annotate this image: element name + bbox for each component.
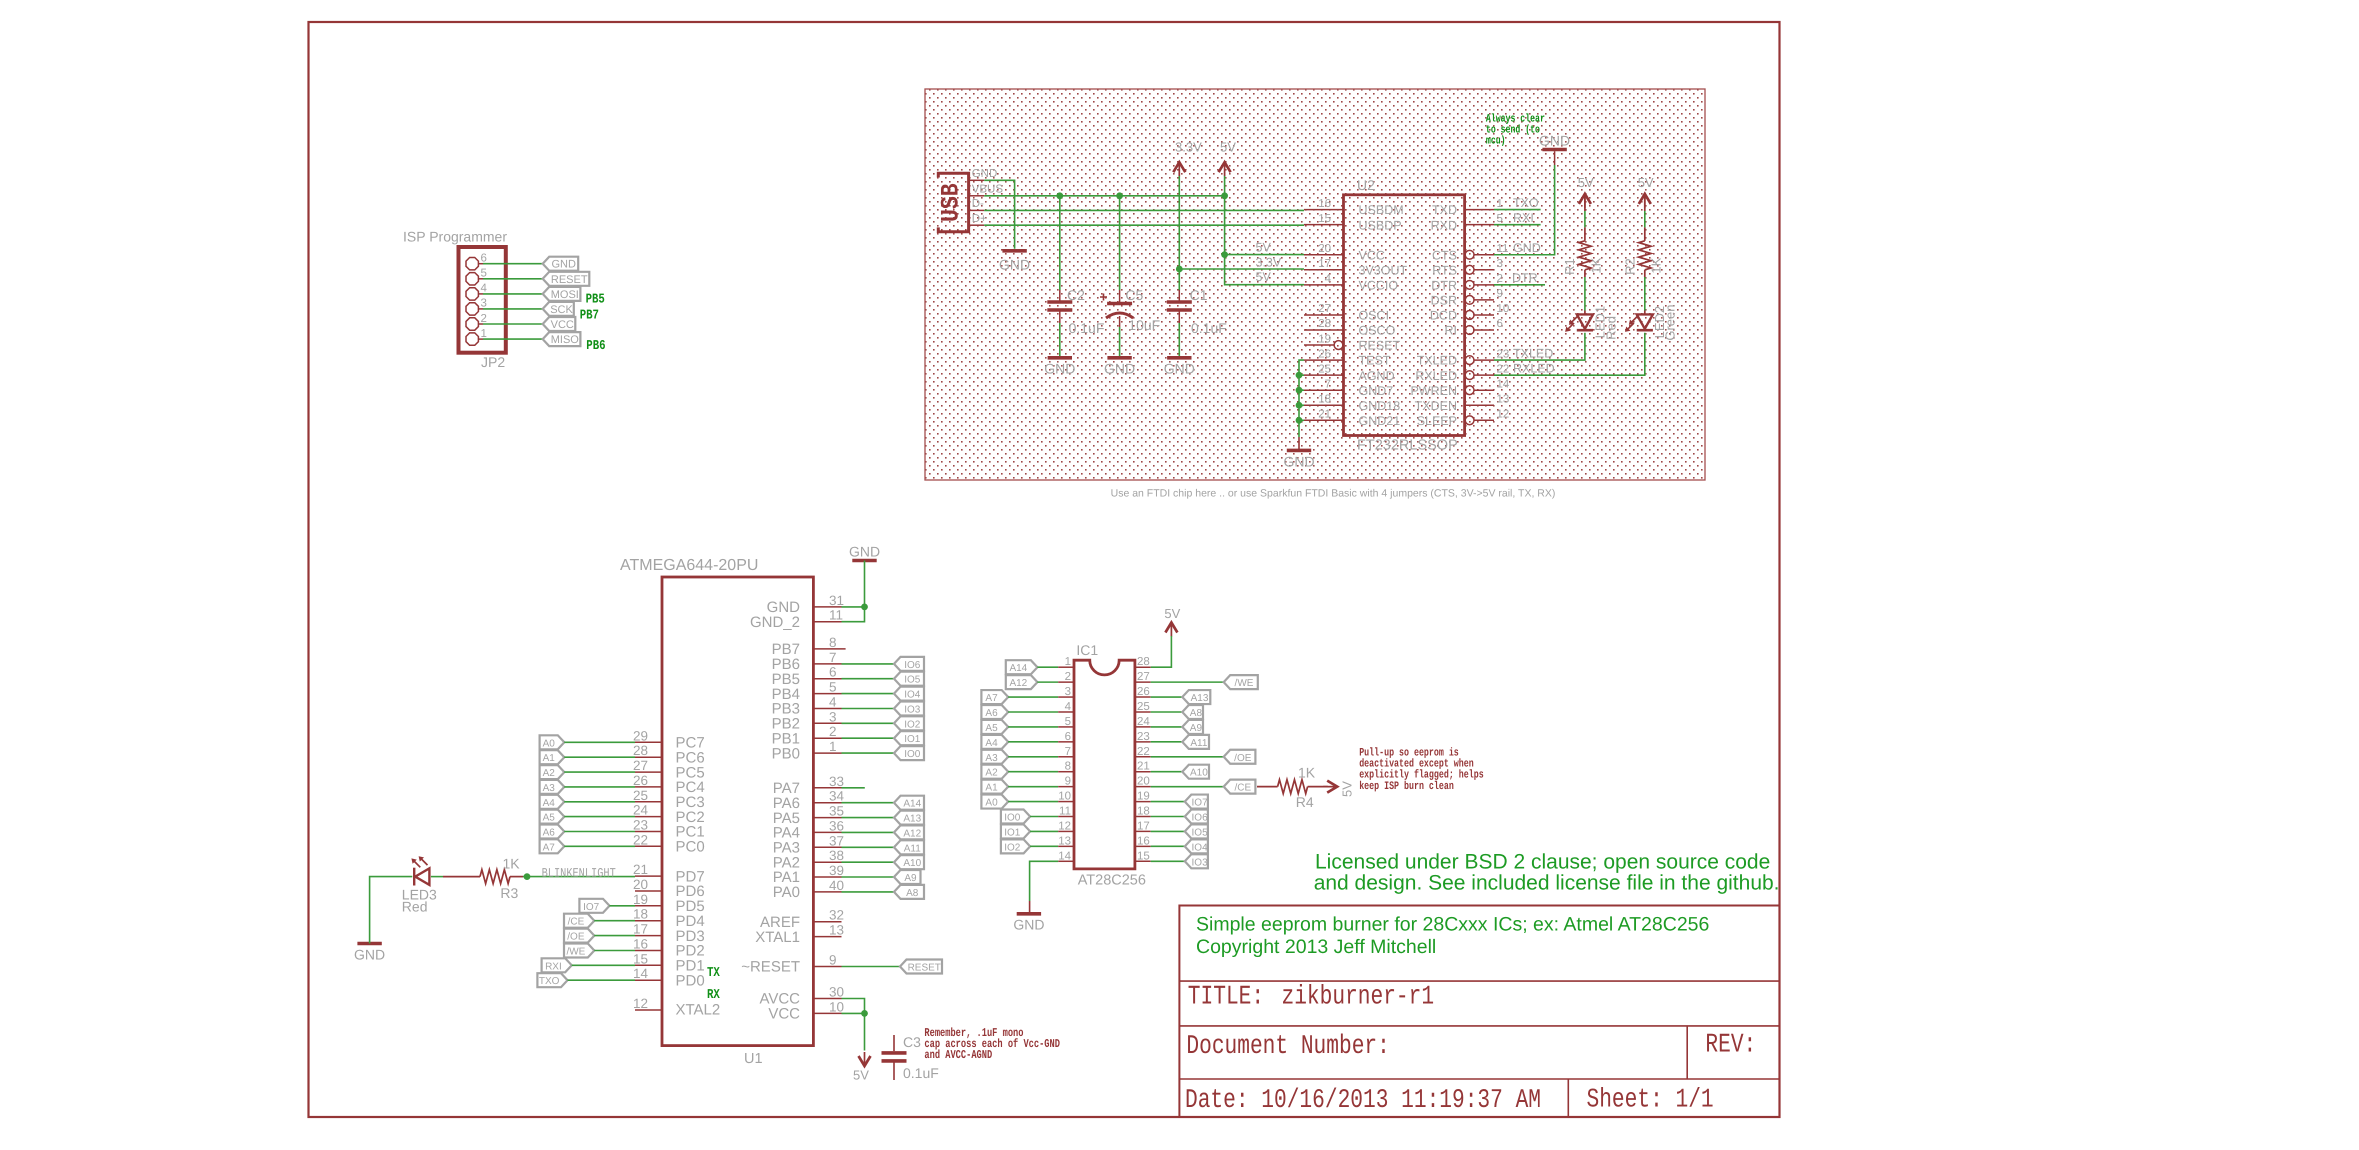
svg-text:3V3OUT: 3V3OUT: [1359, 263, 1408, 277]
svg-text:VBUS: VBUS: [972, 184, 1004, 196]
wire IO1 to IC1: [1030, 830, 1058, 832]
U2 pin 28 OSCO stub: [1304, 329, 1344, 331]
net label BLINKENLIGHT: [542, 867, 616, 882]
svg-text:Licensed under BSD 2 clause; o: Licensed under BSD 2 clause; open source…: [1315, 851, 1770, 874]
svg-text:3: 3: [829, 709, 837, 724]
wire RXI to U1: [572, 964, 635, 966]
svg-text:31: 31: [829, 593, 844, 608]
svg-text:1: 1: [1065, 656, 1071, 668]
U2 pin 18 GND18 stub: [1304, 404, 1344, 406]
wire IC1 to IO4: [1151, 845, 1185, 847]
svg-text:Document Number:: Document Number:: [1186, 1031, 1389, 1061]
svg-text:/WE: /WE: [1235, 678, 1254, 689]
U1 pin 27 stub: [635, 771, 662, 773]
svg-text:A4: A4: [985, 738, 998, 749]
ground symbol C1: [1167, 356, 1191, 360]
net flag A6: [540, 825, 565, 839]
wire IO0 to IC1: [1030, 816, 1058, 818]
svg-text:GND: GND: [1104, 361, 1135, 377]
wire 5V to IC1 pin28: [1151, 636, 1172, 667]
svg-text:GND: GND: [1539, 133, 1570, 149]
svg-text:D-: D-: [972, 198, 984, 210]
net flag A13 (U1 right): [894, 811, 924, 825]
IC1 pin 28 stub: [1135, 666, 1151, 668]
IC1 pin 5 stub: [1058, 726, 1074, 728]
resistor R1: [1579, 241, 1591, 270]
svg-text:20: 20: [1318, 243, 1331, 255]
svg-text:MOSI: MOSI: [551, 289, 579, 301]
wire IC1 to A10: [1151, 771, 1183, 773]
wire GND21 to bus: [1299, 419, 1304, 421]
svg-text:TX: TX: [707, 966, 720, 981]
IC1 pin 8 stub: [1058, 771, 1074, 773]
svg-text:RI: RI: [1445, 324, 1458, 338]
U1 pin 10 stub: [813, 1012, 841, 1014]
svg-text:21: 21: [1318, 409, 1331, 421]
svg-text:38: 38: [829, 848, 844, 863]
wire C5 to ground: [1119, 316, 1121, 327]
svg-text:PWREN: PWREN: [1410, 384, 1457, 398]
svg-text:Date: 10/16/2013 11:19:37 AM: Date: 10/16/2013 11:19:37 AM: [1185, 1085, 1541, 1115]
title block Date field: [1185, 1085, 1541, 1115]
svg-text:DTR: DTR: [1431, 278, 1457, 292]
connector JP2 body: [459, 247, 506, 353]
svg-text:5V: 5V: [1220, 140, 1236, 155]
svg-text:6: 6: [1065, 731, 1071, 743]
svg-text:RXLED: RXLED: [1415, 369, 1457, 383]
U2 pin 16 USBDM stub: [1304, 209, 1344, 211]
svg-text:35: 35: [829, 804, 844, 819]
IC1 pin 17 stub: [1135, 830, 1151, 832]
net flag IO4 (IC1 right): [1185, 839, 1208, 853]
net flag A12 (U1 right): [894, 825, 924, 839]
svg-text:GND: GND: [1013, 917, 1044, 933]
hatched FTDI region: [925, 89, 1705, 480]
U1 pin 19 stub: [635, 905, 662, 907]
svg-text:IO1: IO1: [1004, 827, 1021, 838]
svg-text:A1: A1: [543, 753, 556, 764]
svg-text:A2: A2: [985, 768, 998, 779]
svg-text:39: 39: [829, 863, 844, 878]
svg-text:PA0: PA0: [773, 884, 800, 901]
svg-text:0.1uF: 0.1uF: [1191, 320, 1227, 336]
U2 pin 25 AGND stub: [1304, 374, 1344, 376]
svg-text:2: 2: [1497, 273, 1503, 285]
IC1 pin 1 stub: [1058, 666, 1074, 668]
net flag MISO: [543, 332, 581, 346]
svg-text:A9: A9: [1190, 723, 1203, 734]
junction VBUS C5: [1116, 192, 1123, 199]
net flag /OE (IC1 right): [1224, 750, 1256, 764]
svg-text:OSCO: OSCO: [1359, 324, 1396, 338]
wire USB GND to ground: [984, 180, 1014, 249]
junction VCC branch: [1221, 251, 1228, 258]
U2 pin 7 GND7 stub: [1304, 389, 1344, 391]
svg-text:BLINKENLIGHT: BLINKENLIGHT: [542, 867, 616, 882]
svg-text:ISP Programmer: ISP Programmer: [403, 229, 507, 245]
net flag IO6 (IC1 right): [1185, 810, 1208, 824]
U1 pin 21 stub: [635, 875, 662, 877]
wire VCC pin: [842, 1012, 865, 1014]
JP2 pin 2 stub: [478, 323, 483, 325]
svg-text:1K: 1K: [503, 856, 521, 872]
svg-text:RTS: RTS: [1432, 263, 1457, 277]
net flag A14 (U1 right): [894, 796, 924, 810]
U1 pin 23 stub: [635, 831, 662, 833]
svg-text:28: 28: [633, 743, 648, 758]
svg-text:27: 27: [1318, 303, 1331, 315]
svg-text:1K: 1K: [1648, 257, 1663, 273]
U2 pin 2 DTR stub: [1474, 284, 1494, 286]
svg-text:Simple eeprom burner for 28Cxx: Simple eeprom burner for 28Cxxx ICs; ex:…: [1196, 914, 1709, 936]
wire JP2 to SCK flag: [483, 308, 543, 310]
IC1 pin 27 stub: [1135, 681, 1151, 683]
resistor R3: [480, 870, 510, 884]
svg-text:5V: 5V: [1256, 270, 1272, 284]
svg-text:IO2: IO2: [1004, 842, 1021, 853]
svg-text:IO7: IO7: [583, 902, 600, 913]
net flag IO5 (U1 right): [894, 672, 924, 686]
svg-text:16: 16: [1137, 835, 1150, 847]
title block Sheet field: [1587, 1085, 1714, 1115]
net flag IO7 (U1): [579, 899, 609, 913]
net flag IO2 (IC1): [1001, 839, 1030, 853]
svg-text:5V: 5V: [1340, 781, 1355, 797]
svg-text:18: 18: [633, 907, 648, 922]
svg-text:40: 40: [829, 878, 844, 893]
net label PB7: [580, 309, 599, 324]
ground symbol IC1: [1017, 912, 1041, 916]
U1 pin 38 stub: [813, 861, 841, 863]
U1 pin 8 stub: [813, 648, 845, 650]
ground symbol below USB: [1002, 249, 1026, 253]
wire PA7 stub end: [842, 787, 865, 789]
svg-text:IO1: IO1: [904, 734, 921, 745]
svg-text:GND21: GND21: [1359, 414, 1401, 428]
svg-text:Red: Red: [402, 898, 428, 914]
svg-text:1K: 1K: [1589, 257, 1604, 273]
wire 5V to R1: [1584, 194, 1586, 211]
U2 pin 27 OSCI stub: [1304, 314, 1344, 316]
U1 pin 9 stub: [813, 966, 841, 968]
svg-text:6: 6: [1497, 318, 1503, 330]
U1 pin 13 stub: [813, 936, 841, 938]
junction VBUS 5V arrow: [1221, 192, 1228, 199]
svg-text:12: 12: [1497, 409, 1510, 421]
svg-text:AT28C256: AT28C256: [1078, 873, 1146, 889]
svg-text:TITLE:: TITLE:: [1188, 982, 1264, 1012]
svg-text:A5: A5: [543, 813, 556, 824]
wire CTS to ground: [1494, 165, 1555, 255]
net flag A11 (IC1 right): [1182, 735, 1209, 749]
connector USB symbol: [938, 173, 968, 232]
svg-text:Red: Red: [1603, 316, 1618, 340]
wire R2 to LED2: [1644, 270, 1646, 277]
U2 pin 12 SLEEP stub: [1474, 419, 1494, 421]
net flag /WE (U1): [564, 944, 594, 958]
svg-text:VCCIO: VCCIO: [1359, 278, 1399, 292]
wire GND bus U1: [842, 561, 865, 622]
IC1 pin 7 stub: [1058, 756, 1074, 758]
svg-text:CTS: CTS: [1432, 248, 1457, 262]
wire U1 to IO5: [842, 678, 895, 680]
note always clear to send: [1486, 113, 1545, 125]
U2 pin 22 RXLED stub: [1474, 374, 1494, 376]
svg-text:A7: A7: [543, 842, 556, 853]
svg-text:12: 12: [1058, 820, 1071, 832]
svg-text:A13: A13: [903, 814, 921, 825]
net flag A9 (IC1 right): [1182, 720, 1203, 734]
net flag A8 (U1 right): [894, 885, 924, 899]
U1 green label TX: [707, 966, 720, 981]
U1 pin 39 stub: [813, 876, 841, 878]
LED2: [1637, 314, 1653, 328]
svg-text:GND: GND: [972, 168, 998, 180]
svg-text:R2: R2: [1623, 258, 1638, 275]
net flag A1 (IC1): [981, 780, 1008, 794]
svg-text:SLEEP: SLEEP: [1417, 414, 1457, 428]
svg-text:8: 8: [829, 635, 837, 650]
svg-text:RXD: RXD: [1431, 218, 1457, 232]
svg-text:Copyright 2013 Jeff Mitchell: Copyright 2013 Jeff Mitchell: [1196, 936, 1436, 958]
svg-text:17: 17: [633, 922, 648, 937]
wire RXD net RXI: [1494, 224, 1541, 226]
wire AVCC to VCC bus: [842, 999, 865, 1014]
svg-text:13: 13: [829, 923, 844, 938]
svg-text:Use an FTDI chip here .. or us: Use an FTDI chip here .. or use Sparkfun…: [1111, 488, 1556, 500]
svg-text:6: 6: [829, 665, 837, 680]
svg-text:C2: C2: [1067, 287, 1085, 303]
svg-text:GND: GND: [1044, 361, 1075, 377]
svg-text:RXI: RXI: [1513, 211, 1534, 225]
net flag A5: [540, 810, 565, 824]
U1 pin 28 stub: [635, 756, 662, 758]
svg-text:R3: R3: [500, 885, 518, 901]
net flag A7 (IC1): [981, 690, 1008, 704]
svg-text:IO3: IO3: [904, 705, 921, 716]
net flag IO3 (U1 right): [894, 702, 924, 716]
svg-text:36: 36: [829, 818, 844, 833]
svg-text:ATMEGA644-20PU: ATMEGA644-20PU: [620, 557, 758, 574]
svg-text:28: 28: [1137, 656, 1150, 668]
LED3: [413, 868, 415, 886]
svg-text:Green: Green: [1663, 305, 1678, 341]
svg-text:TXD: TXD: [1432, 203, 1457, 217]
svg-text:PD0: PD0: [676, 972, 705, 989]
U2 pin 26 TEST stub: [1304, 359, 1344, 361]
svg-text:13: 13: [1497, 393, 1510, 405]
JP2 pin 1 stub: [478, 338, 483, 340]
IC1 pin 19 stub: [1135, 801, 1151, 803]
svg-text:RXI: RXI: [545, 961, 562, 972]
U2 pin 1 TXD stub: [1465, 209, 1494, 211]
wire A3 to U1: [564, 786, 635, 788]
net flag SCK: [543, 302, 574, 316]
USB pin D- stub: [969, 209, 985, 211]
svg-text:23: 23: [1497, 348, 1510, 360]
wire R4 to 5V: [1308, 786, 1328, 788]
wire IO7 to U1: [610, 905, 636, 907]
wire IC1 to A11: [1151, 741, 1183, 743]
svg-text:3.3V: 3.3V: [1175, 140, 1202, 155]
svg-text:9: 9: [829, 953, 837, 968]
capacitor C1: [1167, 300, 1192, 304]
svg-text:GND18: GND18: [1359, 399, 1401, 413]
U1 pin 3 stub: [813, 722, 841, 724]
junction 3V3OUT: [1176, 266, 1183, 273]
JP2 pin 3 pad: [466, 303, 478, 315]
svg-text:IO4: IO4: [1192, 842, 1209, 853]
svg-text:GND7: GND7: [1359, 384, 1394, 398]
svg-text:23: 23: [633, 818, 648, 833]
svg-text:/CE: /CE: [1234, 783, 1251, 794]
U1 pin 35 stub: [813, 817, 841, 819]
resistor R2: [1639, 241, 1651, 270]
USB pin GND stub: [969, 179, 985, 181]
svg-text:A3: A3: [985, 753, 998, 764]
net flag A0: [540, 735, 565, 749]
svg-text:TXDEN: TXDEN: [1415, 399, 1457, 413]
U1 pin 29 stub: [635, 741, 662, 743]
svg-text:7: 7: [1325, 378, 1331, 390]
wire JP2 to VCC flag: [483, 323, 543, 325]
svg-text:REV:: REV:: [1705, 1030, 1756, 1060]
ground symbol C2: [1048, 356, 1072, 360]
svg-text:24: 24: [1137, 716, 1150, 728]
wire A14 to IC1: [1037, 666, 1058, 668]
wire JP2 to RESET flag: [483, 278, 543, 280]
net flag /OE (U1): [564, 929, 594, 943]
svg-text:IO3: IO3: [1192, 857, 1209, 868]
wire D+ to USBDP: [984, 224, 1304, 226]
svg-text:/WE: /WE: [566, 947, 585, 958]
svg-text:3.3V: 3.3V: [1256, 256, 1282, 270]
wire A5 to U1: [564, 816, 635, 818]
wire U1 to A13: [842, 817, 895, 819]
svg-text:DTR: DTR: [1512, 271, 1538, 285]
ground symbol C5: [1107, 356, 1131, 360]
svg-text:A10: A10: [1190, 768, 1208, 779]
net flag /CE (IC1 right): [1224, 780, 1256, 794]
net flag A1: [540, 750, 565, 764]
svg-text:RESET: RESET: [1359, 339, 1401, 353]
svg-text:0.1uF: 0.1uF: [1069, 320, 1105, 336]
svg-text:USBDP: USBDP: [1359, 218, 1402, 232]
U2 pin 14 PWREN stub: [1474, 389, 1494, 391]
wire IO2 to IC1: [1030, 845, 1058, 847]
net flag IO4 (U1 right): [894, 687, 924, 701]
wire /WE to U1: [594, 950, 635, 952]
U1 green label RX: [707, 988, 720, 1003]
svg-text:14: 14: [1497, 378, 1510, 390]
U1 pin 34 stub: [813, 802, 841, 804]
svg-text:34: 34: [829, 789, 845, 804]
svg-text:A9: A9: [904, 873, 917, 884]
U2 pin 6 RI stub: [1474, 329, 1494, 331]
net flag RXI (U1): [542, 958, 572, 972]
wire LED3 to R3: [431, 876, 443, 878]
wire A3 to IC1: [1008, 756, 1058, 758]
svg-text:PB6: PB6: [586, 339, 605, 354]
wire TXO to U1: [568, 979, 636, 981]
net flag IO2 (U1 right): [894, 716, 924, 730]
U2 pin 5 RXD stub: [1465, 224, 1494, 226]
svg-text:RESET: RESET: [908, 963, 941, 974]
svg-text:2: 2: [481, 313, 487, 325]
svg-text:IO5: IO5: [904, 675, 921, 686]
JP2 pin 2 pad: [466, 318, 478, 330]
svg-text:IO4: IO4: [904, 690, 921, 701]
svg-text:28: 28: [1318, 318, 1331, 330]
wire /CE to U1: [594, 920, 635, 922]
net flag VCC: [543, 317, 576, 331]
net flag RESET: [900, 960, 942, 974]
U1 pin 11 stub: [813, 621, 841, 623]
svg-text:3: 3: [481, 298, 487, 310]
U1 pin 33 stub: [813, 787, 841, 789]
svg-text:22: 22: [1497, 363, 1510, 375]
wire R1 to LED1: [1584, 270, 1586, 277]
net label PB6: [586, 339, 605, 354]
svg-text:TXLED: TXLED: [1417, 354, 1457, 368]
net flag IO1 (IC1): [1001, 824, 1030, 838]
wire A0 to IC1: [1008, 801, 1058, 803]
svg-text:/OE: /OE: [1234, 753, 1252, 764]
USB pin D+ stub: [969, 224, 985, 226]
svg-text:27: 27: [1137, 671, 1150, 683]
svg-text:mcu): mcu): [1486, 135, 1506, 147]
junction GND7: [1296, 387, 1303, 394]
net flag A4: [540, 795, 565, 809]
U1 pin 18 stub: [635, 920, 662, 922]
U1 pin 12 stub XTAL2: [635, 1009, 662, 1011]
svg-text:IC1: IC1: [1076, 642, 1098, 658]
svg-text:29: 29: [633, 728, 648, 743]
svg-text:A13: A13: [1191, 693, 1209, 704]
svg-text:SCK: SCK: [550, 304, 573, 316]
IC1 pin 14 stub: [1058, 860, 1074, 862]
svg-text:A4: A4: [543, 798, 556, 809]
svg-text:PB0: PB0: [772, 745, 800, 762]
IC1 pin 18 stub: [1135, 816, 1151, 818]
svg-text:A0: A0: [985, 798, 998, 809]
svg-text:1: 1: [829, 739, 837, 754]
IC1 pin 25 stub: [1135, 711, 1151, 713]
U1 pin 6 stub: [813, 678, 841, 680]
net flag A8 (IC1 right): [1182, 705, 1203, 719]
LED1: [1577, 314, 1593, 328]
svg-text:U1: U1: [744, 1051, 763, 1067]
svg-text:18: 18: [1318, 393, 1331, 405]
svg-text:21: 21: [633, 862, 648, 877]
svg-text:/OE: /OE: [567, 932, 585, 943]
svg-text:XTAL1: XTAL1: [755, 929, 800, 946]
svg-text:R4: R4: [1296, 794, 1314, 810]
svg-text:9: 9: [1497, 288, 1503, 300]
svg-text:VCC: VCC: [551, 319, 574, 331]
svg-text:26: 26: [1137, 686, 1150, 698]
svg-text:32: 32: [829, 908, 844, 923]
wire U1 to IO6: [842, 663, 895, 665]
svg-text:22: 22: [1137, 746, 1150, 758]
U1 pin 40 stub: [813, 891, 841, 893]
svg-text:Sheet: 1/1: Sheet: 1/1: [1587, 1085, 1714, 1115]
svg-text:TXO: TXO: [1513, 196, 1539, 210]
wire GND7 to bus: [1299, 389, 1304, 391]
IC1 pin 23 stub: [1135, 741, 1151, 743]
svg-text:A12: A12: [1009, 678, 1027, 689]
wire IC1 to /CE: [1151, 786, 1224, 788]
